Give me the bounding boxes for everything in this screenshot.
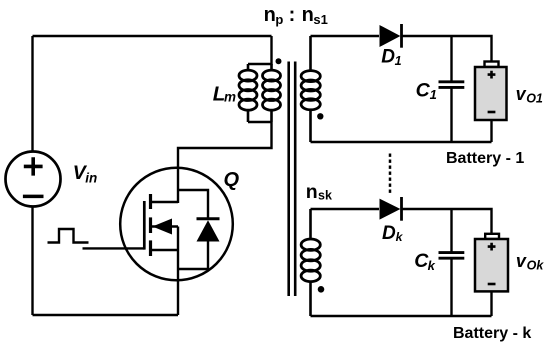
transformer core line left	[287, 62, 290, 297]
svg-text:v: v	[516, 251, 527, 271]
battery k body	[475, 239, 508, 291]
svg-text:Battery - 1: Battery - 1	[446, 150, 524, 167]
wire left upper	[31, 36, 33, 152]
diode D1 triangle	[380, 25, 401, 47]
wire source vertical	[177, 227, 179, 316]
svg-text:D: D	[382, 223, 396, 244]
plus sign in Vin	[24, 157, 43, 175]
body diode triangle	[197, 220, 220, 241]
capacitor C1 top lead	[450, 36, 452, 81]
diode D1 cathode bar	[400, 24, 403, 48]
wire top main	[33, 35, 272, 37]
arrow of mosfet	[152, 219, 172, 235]
body diode bottom wire	[178, 241, 208, 269]
source Vin	[6, 152, 61, 207]
wire secondary k top	[311, 208, 380, 210]
svg-text:k: k	[396, 230, 404, 244]
battery 1 terminal nub	[485, 62, 499, 68]
battery 1 minus	[488, 111, 496, 114]
transformer primary coil np	[270, 64, 273, 122]
transistor Q circle	[120, 168, 233, 281]
capacitor C1 bottom lead	[450, 88, 452, 142]
battery k minus	[488, 283, 496, 286]
svg-text:D: D	[381, 47, 395, 68]
wire top right section k	[402, 209, 492, 234]
wire gate	[83, 247, 145, 249]
secondary 1 coil ns1	[309, 36, 312, 142]
diode Dk triangle	[380, 199, 401, 220]
svg-text:k: k	[428, 258, 436, 273]
diode Dk cathode bar	[400, 197, 403, 221]
body diode top wire	[178, 190, 208, 219]
battery 1 plus	[488, 71, 496, 79]
capacitor C1 plates	[439, 82, 465, 88]
Lm block top wire	[248, 36, 272, 64]
primary polarity dot	[276, 58, 282, 64]
battery 1 body	[475, 67, 507, 120]
source stub	[151, 249, 179, 251]
body arrow stub	[151, 225, 179, 227]
wire bottom section1	[311, 141, 492, 143]
secondary k polarity dot	[318, 286, 325, 293]
svg-text:v: v	[516, 84, 527, 104]
wire left lower	[31, 207, 33, 316]
dashed separator	[389, 154, 392, 194]
svg-text:n: n	[302, 4, 314, 26]
capacitor Ck plates	[439, 253, 465, 259]
battery k plus	[488, 243, 496, 251]
wire drain vertical	[178, 122, 272, 203]
minus sign in Vin	[23, 195, 44, 199]
svg-text:s1: s1	[313, 12, 327, 27]
svg-text:in: in	[85, 171, 97, 186]
svg-text:Q: Q	[224, 169, 240, 191]
channel middle dash	[149, 217, 152, 233]
transformer core line right	[294, 62, 297, 297]
wire battery k bottom	[490, 291, 492, 316]
wire top right section1	[402, 36, 492, 62]
secondary 1 polarity dot	[317, 113, 323, 119]
svg-text:1: 1	[430, 87, 437, 102]
wire bottom left	[33, 314, 179, 316]
channel top dash	[149, 194, 152, 209]
svg-text:p: p	[275, 12, 283, 27]
pulse waveform	[48, 229, 89, 243]
channel bottom dash	[149, 240, 152, 256]
svg-text:sk: sk	[318, 189, 332, 203]
gate bar	[143, 201, 146, 250]
secondary k coil nsk	[309, 209, 312, 316]
inductor Lm coil	[247, 64, 250, 122]
drain stub	[151, 201, 179, 203]
capacitor Ck bottom lead	[450, 259, 452, 316]
wire secondary1 top	[311, 35, 380, 37]
svg-text::: :	[289, 4, 296, 26]
svg-text:C: C	[416, 80, 431, 102]
battery k terminal nub	[485, 234, 499, 239]
svg-text:n: n	[264, 4, 276, 26]
wire battery1 bottom	[490, 120, 492, 142]
svg-text:O1: O1	[526, 92, 543, 106]
svg-text:Battery - k: Battery - k	[453, 325, 531, 342]
svg-text:Ok: Ok	[527, 258, 545, 272]
svg-text:1: 1	[395, 54, 402, 68]
svg-text:n: n	[306, 181, 318, 203]
svg-text:m: m	[224, 90, 236, 105]
body diode cathode bar	[197, 217, 220, 220]
capacitor Ck top lead	[450, 209, 452, 252]
Lm block bottom wire	[248, 121, 272, 123]
wire bottom section k	[311, 315, 492, 317]
